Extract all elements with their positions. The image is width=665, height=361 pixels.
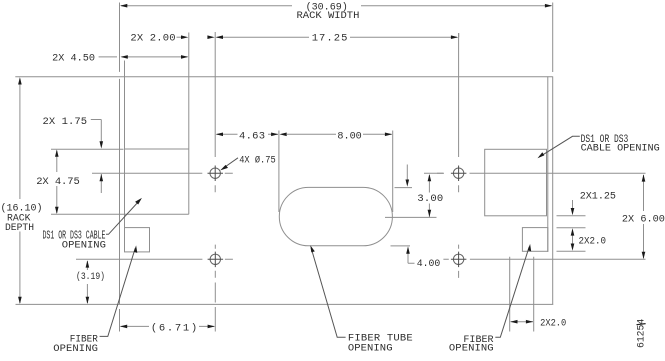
svg-text:OPENING: OPENING [53,343,98,355]
label 4X dia .75 with leader [220,155,276,171]
dimension 2X1.25 [557,191,617,216]
svg-text:4.00: 4.00 [417,258,441,270]
svg-text:2X2.0: 2X2.0 [579,236,607,248]
dimension 2X2.0 right vertical [557,228,607,252]
label DS1 OR DS3 CABLE OPENING right with leader [538,134,660,158]
svg-text:OPENING: OPENING [348,342,393,354]
panel outline [15,76,553,304]
left fiber opening square [125,228,150,252]
svg-text:2X 4.50: 2X 4.50 [52,52,95,64]
svg-text:CABLE OPENING: CABLE OPENING [581,142,660,154]
dimension (30.69) RACK WIDTH [120,1,553,72]
svg-text:2X1.25: 2X1.25 [580,191,616,203]
svg-text:17.25: 17.25 [312,32,348,44]
svg-text:2X 4.75: 2X 4.75 [36,176,80,188]
svg-text:4.63: 4.63 [239,130,265,142]
svg-text:OPENING: OPENING [62,240,106,252]
dimension 2X2.0 bottom [510,257,567,332]
dimension 2X 4.50 [52,52,188,64]
right flange fold line [547,76,549,252]
dimension 2X 2.00 [130,32,214,44]
label FIBER OPENING right with leader [449,244,531,355]
dimension 4.63 [216,130,279,212]
dimension (16.10) RACK DEPTH [1,77,43,304]
dimension 2X 4.75 [36,150,124,215]
svg-text:RACK WIDTH: RACK WIDTH [297,10,360,22]
dimension 4.00 [391,246,441,270]
svg-text:2X 6.00: 2X 6.00 [622,214,665,226]
svg-text:8.00: 8.00 [337,130,361,142]
svg-text:4X Ø.75: 4X Ø.75 [239,155,276,167]
label DS1 OR DS3 CABLE OPENING left with leader [43,198,142,252]
svg-text:2X2.0: 2X2.0 [540,317,566,329]
dimension 3.00 [385,173,443,217]
dimension 2X 1.75 [43,116,124,193]
svg-text:2X 1.75: 2X 1.75 [43,116,88,128]
svg-text:OPENING: OPENING [449,343,494,355]
left flange fold line [124,61,126,252]
fiber tube opening obround [279,187,392,245]
left DS1/DS3 cable opening [125,33,189,215]
dimension (3.19) [76,260,105,304]
dimension 2X 6.00 [622,174,665,259]
right fiber opening square [522,228,547,252]
hole H1 upper-left circle [92,32,233,192]
hole H2 upper-right circle [437,33,646,192]
label FIBER OPENING left with leader [53,245,137,355]
svg-text:3.00: 3.00 [417,193,443,205]
svg-text:2X 2.00: 2X 2.00 [130,32,175,44]
hole H3 lower-left circle [76,245,233,332]
svg-text:61254: 61254 [636,319,648,348]
svg-text:(3.19): (3.19) [76,271,105,283]
hole H4 lower-right circle [443,245,645,278]
label FIBER TUBE OPENING with leader [310,245,412,354]
dimension (6.71) [120,309,215,335]
drawing number 61254 vertical [636,319,648,348]
reference arrow at fiber tube top edge [395,165,413,188]
svg-text:DEPTH: DEPTH [5,222,34,234]
dimension 17.25 [216,32,459,44]
right DS1/DS3 cable opening [485,149,547,216]
dimension 8.00 [279,130,392,212]
